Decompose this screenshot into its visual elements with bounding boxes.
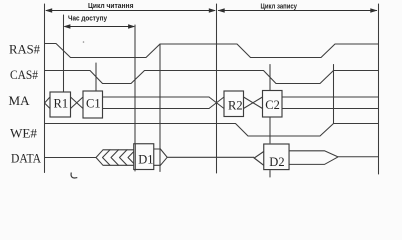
scan speck [83,41,85,43]
vertical into C1 x=96 [95,63,97,92]
svg-text:MA: MA [9,93,31,108]
C1 box [83,91,103,118]
svg-text:C2: C2 [265,98,280,112]
C2 box [263,91,283,118]
CAS# waveform [45,71,379,84]
svg-text:Час доступу: Час доступу [68,14,107,23]
MA bus open at left [45,97,51,109]
access-time vertical passing through D1 [134,144,136,169]
svg-text:C1: C1 [86,97,101,111]
DATA rails right of D2 [289,151,379,165]
vertical cycle line right x=378.5 [378,4,380,174]
svg-text:R1: R1 [54,97,69,111]
svg-text:D2: D2 [269,155,284,169]
DATA open before D2 [254,152,264,166]
vertical marker x=160 from RAS rise corner down [159,44,161,172]
access time arrow [65,26,135,28]
svg-text:RAS#: RAS# [9,42,40,57]
DATA chevrons [103,150,111,166]
vertical marker x=333.5 CAS corner to WE corner [333,65,335,124]
MA rails C2 to right [282,97,379,109]
MA X transition R2-C2 [244,97,263,109]
MA rails C1 to X2 [103,97,210,109]
MA X transition R1-C1 [71,97,84,109]
access-time start vertical x=63.5 down into R1 [63,15,65,92]
svg-text:Цикл запису: Цикл запису [261,1,298,10]
vertical cycle line left x=44.5 [44,4,46,173]
access-time end vertical x=135 [134,25,136,171]
MA X transition before R2 [209,97,224,109]
D2 box [264,144,289,170]
vertical into C2 x=270 [269,65,271,91]
stray curve bottom left [71,173,77,178]
R2 box [224,91,244,117]
vertical cycle line middle x=216.5 [216,4,218,173]
DATA valid close after D1 [154,149,254,166]
D1 box [134,144,154,170]
svg-text:D1: D1 [138,153,153,167]
svg-text:R2: R2 [228,98,243,112]
svg-text:DATA: DATA [11,151,42,166]
DATA line left [45,157,97,159]
R1 box [50,92,71,117]
vertical below D2 [269,171,271,178]
WE# waveform [45,124,379,137]
write cycle arrow [218,10,377,12]
read cycle arrow [45,8,378,29]
vertical C2 bottom to D2 top [269,117,271,143]
RAS# waveform [45,44,379,58]
DATA hi-Z band opening [96,150,134,166]
svg-text:WE#: WE# [10,126,37,141]
svg-text:Цикл читання: Цикл читання [88,1,134,10]
svg-text:CAS#: CAS# [10,67,38,82]
